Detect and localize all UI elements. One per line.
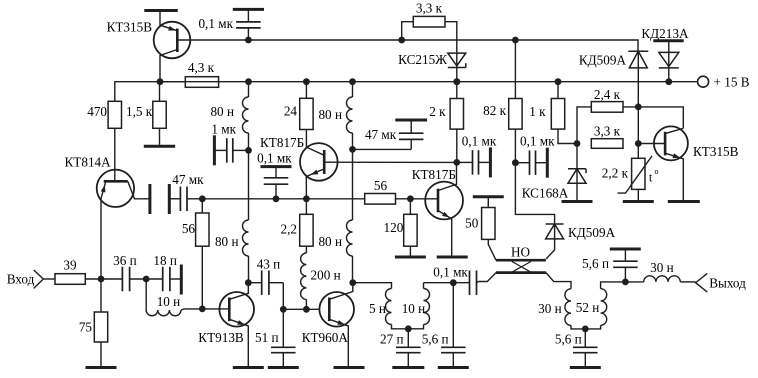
svg-text:30 н: 30 н <box>650 260 674 275</box>
capacitor 36 п <box>113 253 137 291</box>
node: KT817B(1) emitter on mid rail <box>303 195 310 202</box>
capacitor 51 п <box>255 309 296 366</box>
svg-text:КТ814А: КТ814А <box>65 155 112 170</box>
svg-text:3,3 к: 3,3 к <box>416 1 443 16</box>
capacitor 5,6 п (1) <box>422 283 466 366</box>
arrow KT960A emitter <box>329 319 348 366</box>
wire: NO lower right lead <box>546 273 571 289</box>
node: 43p / 51p / base wire <box>280 306 287 313</box>
wire: base lead KT315V(right) <box>638 143 665 145</box>
svg-text:52 н: 52 н <box>576 300 600 315</box>
svg-text:80 н: 80 н <box>318 234 342 249</box>
node: 24 top on +15V rail <box>303 78 310 85</box>
resistor 56 (vertical) <box>182 213 209 246</box>
wire: 24 to KT817B(1) collector <box>306 130 324 156</box>
capacitor 0,1 мк (bypass, mid 1) <box>457 134 497 175</box>
wire: KT814A emitter down to input node <box>101 181 106 279</box>
svg-text:10 н: 10 н <box>157 294 181 309</box>
svg-text:0,1 мк: 0,1 мк <box>433 265 468 280</box>
svg-text:КД509А: КД509А <box>568 225 616 240</box>
wire: KT315V(1) base lead / upper rail (y=40) to KD509A corner <box>177 40 638 51</box>
svg-text:+ 15 В: + 15 В <box>714 74 750 89</box>
svg-text:КТ315В: КТ315В <box>693 144 739 159</box>
svg-text:27 п: 27 п <box>380 332 404 347</box>
ground (1,5k bottom) <box>144 145 175 148</box>
wire: 56v top stem <box>201 199 203 213</box>
inductor 80 н (b) <box>318 82 352 150</box>
capacitor 47 мк (vertical, to ground) <box>365 120 424 149</box>
resistor 2,4 к <box>591 87 623 112</box>
wire: 2,2 top stem <box>305 199 307 215</box>
node: 36p/18p/10n <box>143 276 150 283</box>
svg-text:75: 75 <box>79 320 93 335</box>
node: 2k/KT817B collector junction <box>453 159 460 166</box>
svg-text:56: 56 <box>182 221 196 236</box>
ground (KT315V right emitter) <box>668 200 700 203</box>
wire: 36p to node <box>130 278 147 280</box>
inductor 80 н (d) <box>318 220 352 283</box>
resistor 82 к <box>483 99 522 130</box>
wire: collector to 5n coil <box>353 283 392 289</box>
wire: KT913V collector <box>229 283 248 300</box>
wire: 82k bottom stem <box>514 129 516 163</box>
svg-text:5,6 п: 5,6 п <box>582 256 609 271</box>
node: input/KT814A/75 <box>98 276 105 283</box>
svg-text:24: 24 <box>284 104 298 119</box>
wire: x=352.5 down <box>352 149 354 220</box>
ground (KT814A collector, side bar) <box>148 184 151 214</box>
wire: 0,1mk to NO lower left <box>477 282 479 283</box>
svg-text:120: 120 <box>384 220 404 235</box>
wire: 50 top stem <box>487 197 489 208</box>
ground (0,1 mk mid 1) <box>489 147 492 177</box>
wire: 2k bottom stem <box>456 129 458 162</box>
wire: 2,4k left lead <box>577 107 591 144</box>
node: KT315V(1) collector junction <box>157 78 164 85</box>
wire: 1k bottom to node B <box>558 129 577 143</box>
svg-text:2,4 к: 2,4 к <box>594 87 621 102</box>
svg-text:1 мк: 1 мк <box>211 122 236 137</box>
transistor КТ913В <box>198 292 254 345</box>
ground (0,1 mk mid shunt) <box>261 165 292 168</box>
ground (5,6p top-right) <box>610 248 641 251</box>
inductor 10 н (input) <box>146 279 181 316</box>
transformer НО crossover <box>512 262 531 273</box>
inductor 200 н <box>301 246 341 309</box>
node: 1k top on +15V rail <box>555 78 562 85</box>
svg-text:43 п: 43 п <box>257 257 281 272</box>
node: 56h/120/KT817B(2) base <box>407 195 414 202</box>
wire: KT315V(1) emitter to top ground <box>160 11 177 31</box>
arrow KT315V(r) emitter <box>665 153 683 200</box>
wire: 43p corner down <box>282 283 284 310</box>
wire: KD509A(2) cathode to 82k node <box>515 163 554 239</box>
resistor 3,3 к (right) <box>591 124 623 149</box>
wire: NO lower left lead <box>478 273 496 282</box>
node: KT960A collector junction <box>349 279 356 286</box>
svg-text:39: 39 <box>63 258 77 273</box>
ground (5,6p 1) <box>438 366 469 369</box>
ground (5,6p right) <box>570 366 601 369</box>
svg-text:80 н: 80 н <box>318 107 342 122</box>
transistor КТ817Б (2) <box>412 167 463 219</box>
inductor 52 н <box>576 282 626 329</box>
ground (47 mk vertical) <box>395 119 427 122</box>
wire: node B down to KS168A <box>576 144 578 184</box>
ground (120 bottom) <box>395 256 426 259</box>
wire: 50 to NO upper winding <box>488 239 496 260</box>
ground (KS168A) <box>562 200 593 203</box>
resistor 2 к <box>429 99 463 130</box>
svg-text:36 п: 36 п <box>113 253 137 268</box>
transistor KT315V (top left) <box>107 20 191 59</box>
svg-text:3,3 к: 3,3 к <box>594 124 621 139</box>
wire: 2,4k right to collector corner <box>623 107 683 128</box>
transistor КТ814А <box>65 155 135 208</box>
svg-text:5,6 п: 5,6 п <box>422 332 449 347</box>
zener diode КС168А <box>522 169 586 201</box>
svg-text:КС215Ж: КС215Ж <box>398 52 447 67</box>
ground (50 top) <box>473 195 504 198</box>
node: 80n(b) top on +15V rail <box>349 78 356 85</box>
ground top-left (KT315V emitter) <box>144 9 177 12</box>
node: zener on +15V rail <box>453 78 460 85</box>
wire: 3,3k top right lead to zener <box>445 22 457 68</box>
node: 2,4k right / KD509A <box>635 104 642 111</box>
svg-text:КД509А: КД509А <box>579 52 627 67</box>
svg-text:КТ817Б: КТ817Б <box>412 167 456 182</box>
svg-text:2 к: 2 к <box>429 104 446 119</box>
node: 1mk tap <box>245 147 252 154</box>
transformer НО lower winding <box>496 271 546 274</box>
wire: 3,3k top left lead <box>402 22 414 40</box>
node: B (1k/3,3k/KS168A) <box>574 140 581 147</box>
node: KT913V collector / 80n / 43p <box>245 279 252 286</box>
capacitor 5,6 п (top right) <box>582 249 637 282</box>
wire: mid rail (y=199) <box>202 198 364 200</box>
ground (KT913V emitter) <box>233 366 264 369</box>
node: KD213A on +15V rail <box>665 78 672 85</box>
node: 0,1mk top on rail y40 <box>245 37 252 44</box>
diode КД509А (upper) <box>579 51 648 68</box>
capacitor 0,1 мк (bypass, mid 2) <box>515 134 555 175</box>
svg-text:НО: НО <box>511 245 530 260</box>
inductor 5 н <box>369 289 408 329</box>
svg-text:4,3 к: 4,3 к <box>188 60 215 75</box>
wire: x=248.5 down through rails <box>248 150 250 220</box>
resistor 120 <box>384 214 418 246</box>
svg-text:o: o <box>655 167 659 176</box>
svg-text:47 мк: 47 мк <box>172 172 204 187</box>
wire: 120 bottom <box>409 246 411 255</box>
wire: input to 39 <box>43 278 55 280</box>
node: 52n top / 5,6p top <box>622 279 629 286</box>
transistor КТ315В (right) <box>654 126 739 160</box>
wire: 10n to KT913V base <box>181 309 229 310</box>
node: 2k top on +15V rail <box>453 78 460 85</box>
inductor 80 н (a) <box>210 82 248 151</box>
ground (47 mk side bar) <box>168 184 171 214</box>
diode КД509А (lower) <box>546 224 616 240</box>
wire: KS168A anode to ground <box>576 183 578 200</box>
wire: thermistor to ground <box>637 189 639 200</box>
svg-text:5 н: 5 н <box>369 301 386 316</box>
terminal Выход <box>696 273 747 292</box>
svg-text:2,2: 2,2 <box>281 222 297 237</box>
node: 80n(a) top on +15V rail <box>245 78 252 85</box>
wire: mid rail right of 56 <box>396 198 439 200</box>
capacitor 47 мк (to ground, horizontal) <box>169 172 204 211</box>
node: 47mk / 56 / mid rail <box>199 195 206 202</box>
wire: zener KS215Zh to +15V rail <box>456 68 458 82</box>
node: 56 bottom / base wire <box>199 306 206 313</box>
svg-text:470: 470 <box>87 104 107 119</box>
svg-text:56: 56 <box>374 178 388 193</box>
wire: 82k top stem (crosses +15V rail) <box>514 40 516 99</box>
svg-text:0,1 мк: 0,1 мк <box>520 134 555 149</box>
node: 30n/52n bottom / 5,6p <box>582 326 589 333</box>
svg-text:47 мк: 47 мк <box>365 127 397 142</box>
ground (18p) <box>180 265 183 295</box>
wire: 39 to node <box>85 278 122 280</box>
svg-text:50: 50 <box>465 216 479 231</box>
svg-text:10 н: 10 н <box>402 301 426 316</box>
inductor 30 н (vertical) <box>538 289 585 329</box>
resistor 470 <box>87 101 121 128</box>
wire: 1k top stem <box>557 82 559 99</box>
transistor КТ960А <box>302 292 354 345</box>
resistor 2,2 <box>281 214 314 246</box>
ground (51p) <box>268 366 299 369</box>
transistor КТ817Б (1) <box>260 135 338 181</box>
resistor 56 (horizontal) <box>365 178 396 204</box>
ground (0,1 mk top) <box>233 8 264 11</box>
zener diode КС215Ж <box>398 52 466 67</box>
arrow KT817B(2) emitter <box>438 211 452 256</box>
wire: 75 top stem <box>100 279 102 312</box>
wire: KD509A(1) anode down across +15V rail to 2,4k node <box>637 51 639 143</box>
arrow KT817B(1) emitter <box>306 169 324 199</box>
svg-text:30 н: 30 н <box>538 301 562 316</box>
capacitor 27 п <box>380 329 421 366</box>
node: pi filter bottom / 27p <box>405 325 412 332</box>
ground (KD213A top) <box>653 39 683 42</box>
transformer НО upper winding <box>496 245 546 261</box>
resistor 75 <box>79 312 108 342</box>
wire: 24 stem top <box>305 82 307 99</box>
wire: NO upper right lead to KD509A(2) <box>546 239 554 259</box>
thermistor 2,2 к <box>602 144 659 194</box>
terminal +15 В <box>698 74 750 89</box>
resistor 4,3 к <box>185 60 218 87</box>
svg-text:1,5 к: 1,5 к <box>126 104 153 119</box>
ground (KT817B(2) emitter) <box>437 256 468 259</box>
svg-text:18 п: 18 п <box>153 253 177 268</box>
capacitor 1 мк (to ground) <box>211 122 248 163</box>
ground (thermistor) <box>623 200 654 203</box>
svg-text:КТ315В: КТ315В <box>107 20 153 35</box>
inductor 80 н (c) <box>215 220 249 283</box>
arrow KT913V emitter <box>229 319 248 366</box>
svg-text:200 н: 200 н <box>311 268 341 283</box>
resistor 24 <box>284 98 313 129</box>
node: 47mk(vert) tap <box>349 146 356 153</box>
wire: 120 top stem <box>409 199 411 215</box>
wire: 1,5k bottom to ground <box>159 128 161 145</box>
capacitor 43 п <box>248 257 283 295</box>
wire: KT315V(1) collector down <box>160 50 177 82</box>
node: 200n bottom on base wire <box>303 306 310 313</box>
svg-text:КС168А: КС168А <box>522 185 569 200</box>
svg-text:5,6 п: 5,6 п <box>555 332 582 347</box>
wire: 47mk vert to 80n tap <box>353 148 412 150</box>
capacitor 0,1 mk (top, to ground) <box>198 9 260 40</box>
node: 3,3k left on rail y40 <box>398 37 405 44</box>
wire: KT817B(2) collector <box>438 162 457 190</box>
terminal Вход <box>7 270 44 288</box>
svg-text:80 н: 80 н <box>215 234 239 249</box>
wire: 470 to KT814A base <box>114 128 116 180</box>
wire: +15V rail left jog to 470 <box>115 82 160 102</box>
wire: base wire KT960A <box>283 308 319 310</box>
wire: rail B from 4,3k <box>160 81 219 83</box>
svg-text:КТ817Б: КТ817Б <box>260 135 304 150</box>
ground (75 bottom) <box>86 366 117 369</box>
inductor 10 н (pi filter) <box>402 283 430 329</box>
wire: +15V rail (y=82) <box>160 81 698 83</box>
svg-text:0,1 мк: 0,1 мк <box>198 16 233 31</box>
wire: 1,5k top stem <box>159 82 161 102</box>
svg-text:82 к: 82 к <box>483 103 506 118</box>
wire: 2k stems <box>456 82 458 99</box>
node: 82k top on rail y40 <box>512 37 519 44</box>
inductor 30 н (output) <box>625 260 695 282</box>
svg-text:80 н: 80 н <box>210 104 234 119</box>
svg-text:Выход: Выход <box>709 276 746 291</box>
wire: KT817B(1) base lead (rail y=162) <box>324 161 457 163</box>
ground (0,1 mk mid 2) <box>546 148 549 178</box>
svg-text:51 п: 51 п <box>255 330 279 345</box>
svg-text:2,2 к: 2,2 к <box>602 166 629 181</box>
svg-text:КД213А: КД213А <box>641 26 689 41</box>
node: 5,6p(1) junction <box>450 279 457 286</box>
svg-text:0,1 мк: 0,1 мк <box>257 150 292 165</box>
node: 3,3k right / thermistor / base <box>635 140 642 147</box>
ground (KT960A emitter) <box>334 366 365 369</box>
ground (1 mk side bar) <box>213 135 216 165</box>
svg-text:0,1 мк: 0,1 мк <box>462 134 497 149</box>
ground (27p) <box>392 366 424 369</box>
wire: 10n top to 0,1mk <box>424 282 470 284</box>
node: 0,1mk mid on rail <box>273 195 280 202</box>
resistor 39 <box>55 258 85 285</box>
svg-text:КТ913В: КТ913В <box>198 330 244 345</box>
wire: 56v bottom stem <box>201 246 203 309</box>
svg-text:1 к: 1 к <box>529 104 546 119</box>
svg-text:КТ960А: КТ960А <box>302 330 349 345</box>
wire: KT960A collector <box>329 283 353 300</box>
wire: KT814A collector to side ground <box>128 181 150 199</box>
capacitor 0,1 мк (output coupling) <box>433 265 476 295</box>
wire: 75 bottom <box>100 342 102 366</box>
capacitor 0,1 мк (mid shunt, to ground) <box>257 150 292 198</box>
node: 82k bottom junction <box>512 159 519 166</box>
resistor 3,3 к (top) <box>413 1 445 28</box>
wire: KT315V(r) collector <box>665 128 683 133</box>
capacitor 18 п <box>146 253 181 291</box>
capacitor 5,6 п (right bottom) <box>555 329 598 366</box>
resistor 1 к <box>529 99 565 130</box>
resistor 50 <box>465 208 495 240</box>
resistor 1,5 к <box>126 101 166 128</box>
svg-text:Вход: Вход <box>7 271 35 286</box>
svg-text:t: t <box>649 171 653 185</box>
diode КД213А <box>641 26 689 81</box>
